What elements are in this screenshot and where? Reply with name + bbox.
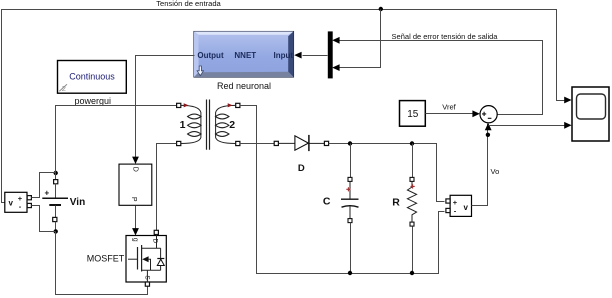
- voltage source battery Vin: [42, 171, 68, 234]
- mux MX1: [328, 31, 333, 78]
- svg-text:2: 2: [229, 119, 235, 131]
- svg-text:NNET: NNET: [234, 51, 256, 60]
- svg-text:D: D: [298, 163, 305, 174]
- wire transformer secondary bottom to diode: [240, 143, 275, 145]
- arrowhead into mux input 1: [332, 37, 339, 44]
- arrowhead into NNET input: [294, 52, 301, 59]
- block D/P duty-cycle converter: [119, 164, 152, 205]
- node R bottom: [410, 271, 414, 275]
- svg-text:R: R: [392, 196, 400, 208]
- transformer T1: [177, 100, 240, 150]
- wire Tension de entrada (v output around perimeter to scope in1): [2, 10, 566, 203]
- wire v- to battery - node: [32, 206, 56, 232]
- wire battery - to MOSFET source (bottom loop): [56, 232, 148, 295]
- wire v+ to battery + node: [32, 173, 56, 198]
- constant block 15: [400, 101, 426, 127]
- svg-text:15: 15: [407, 109, 419, 120]
- sum block S1: [480, 106, 497, 123]
- svg-text:g: g: [132, 238, 139, 242]
- arrowhead into sum left: [472, 110, 479, 117]
- wire transformer primary bottom to MOSFET drain: [157, 144, 177, 231]
- svg-text:Tensión de entrada: Tensión de entrada: [156, 0, 221, 8]
- node Vo branch: [486, 133, 490, 137]
- arrowhead into MOSFET gate: [132, 228, 139, 235]
- svg-text:Señal de error tensión de sali: Señal de error tensión de salida: [392, 32, 499, 41]
- svg-text:C: C: [323, 196, 331, 208]
- svg-text:Input: Input: [274, 51, 294, 60]
- node junction on top wire: [379, 7, 383, 11]
- wire Vo branch to scope input 2: [489, 125, 566, 127]
- svg-text:v: v: [9, 199, 14, 208]
- wire branch from top wire to mux input 2: [340, 10, 381, 68]
- wire D/P output to MOSFET gate: [135, 206, 137, 229]
- wire battery + up to transformer primary top: [56, 106, 177, 174]
- svg-text:Vin: Vin: [70, 197, 85, 208]
- wire Vo output up to sum: [472, 124, 488, 206]
- node R top: [410, 141, 414, 145]
- arrowhead into scope input 2: [564, 122, 571, 129]
- resistor R: [407, 144, 416, 274]
- svg-text:Vref: Vref: [442, 103, 456, 112]
- block MOSFET: [126, 230, 166, 286]
- block powergui Continuous: [58, 61, 127, 94]
- node C top: [348, 141, 352, 145]
- wire output top rail (diode to load): [329, 144, 445, 202]
- scope block: [572, 87, 609, 141]
- arrowhead into mux input 2: [332, 64, 339, 71]
- svg-text:Continuous: Continuous: [69, 71, 115, 81]
- diode D: [274, 135, 328, 151]
- wire Vref to sum: [426, 113, 474, 115]
- wire Senal de error (sum output to mux input 1): [340, 41, 543, 115]
- svg-text:D: D: [151, 239, 158, 244]
- svg-text:powergui: powergui: [75, 96, 112, 106]
- svg-text:D: D: [131, 167, 138, 172]
- svg-text:Vo: Vo: [491, 167, 500, 176]
- wire mux output to NNET input: [303, 55, 328, 57]
- svg-text:1: 1: [180, 119, 186, 131]
- svg-text:+: +: [45, 189, 50, 198]
- svg-text:Red neuronal: Red neuronal: [217, 81, 271, 91]
- svg-text:P: P: [130, 197, 137, 202]
- svg-text:Output: Output: [197, 51, 224, 60]
- node C bottom: [348, 271, 352, 275]
- arrowhead into sum bottom: [485, 123, 492, 130]
- wire NNET output to D/P converter: [136, 56, 195, 158]
- svg-text:MOSFET: MOSFET: [87, 254, 125, 264]
- arrowhead into scope input 1: [564, 97, 571, 104]
- capacitor C: [341, 144, 359, 274]
- svg-text:v: v: [464, 203, 469, 212]
- voltage measurement block v (input side): [5, 192, 32, 212]
- arrowhead into D/P block: [132, 157, 139, 164]
- wire transformer secondary top to bottom rail: [240, 106, 445, 274]
- svg-text:S: S: [143, 275, 150, 280]
- voltage measurement block v (output side Vo): [446, 195, 472, 216]
- op-amp-block U1 Red neuronal (NNET): [194, 32, 294, 78]
